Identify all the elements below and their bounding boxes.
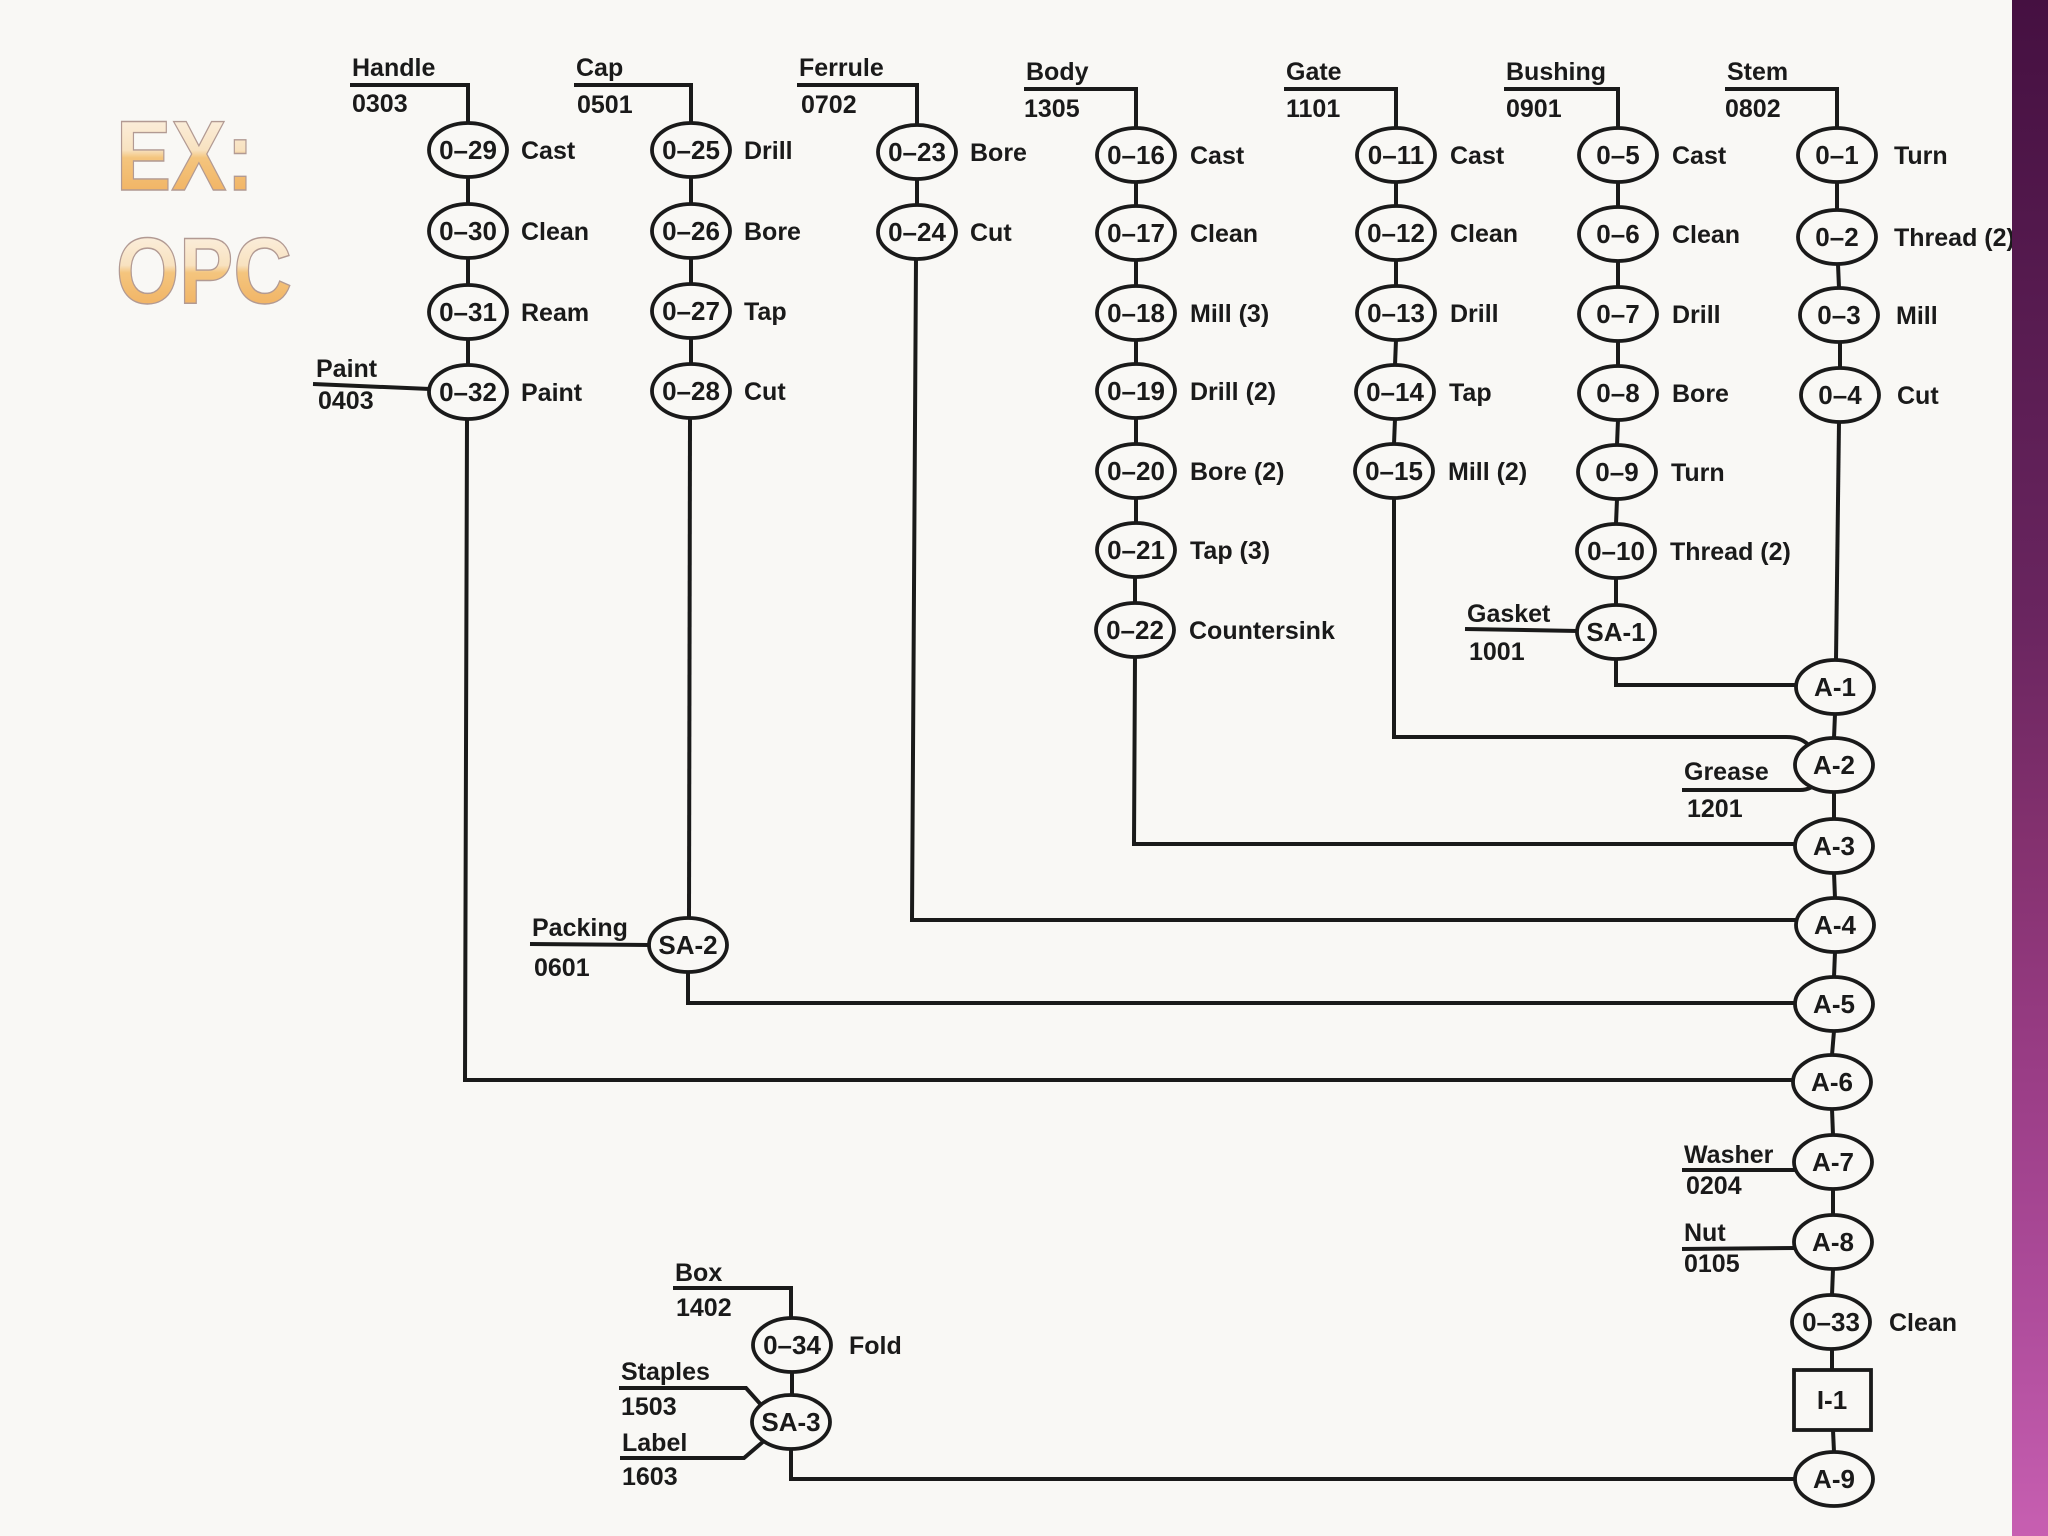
op 0-29	[429, 123, 576, 177]
wire	[466, 258, 470, 285]
wire	[1614, 578, 1618, 605]
svg-text:0403: 0403	[318, 387, 374, 415]
op 0-3	[1800, 288, 1938, 342]
svg-text:Cap: Cap	[576, 54, 623, 82]
wire	[1617, 420, 1618, 445]
svg-text:Handle: Handle	[352, 54, 435, 82]
node Nut input	[1684, 1219, 1740, 1278]
svg-text:Cut: Cut	[1897, 382, 1939, 410]
svg-text:0–29: 0–29	[439, 135, 497, 165]
svg-text:SA-3: SA-3	[761, 1407, 820, 1437]
op 0-1	[1798, 128, 1948, 182]
svg-text:Mill: Mill	[1896, 302, 1938, 330]
op 0-19	[1097, 364, 1276, 418]
subassembly SA-2	[649, 918, 727, 972]
svg-text:Cast: Cast	[1672, 142, 1727, 170]
svg-text:Gasket: Gasket	[1467, 600, 1551, 628]
svg-text:0–22: 0–22	[1106, 615, 1164, 645]
op 0-33	[1792, 1295, 1957, 1349]
svg-text:A-4: A-4	[1814, 910, 1856, 940]
node Staples input	[621, 1358, 710, 1421]
svg-text:0–2: 0–2	[1815, 222, 1858, 252]
svg-text:Mill (2): Mill (2)	[1448, 458, 1527, 486]
op 0-14	[1356, 365, 1492, 419]
op 0-11	[1357, 128, 1505, 182]
svg-text:0–20: 0–20	[1107, 456, 1165, 486]
svg-text:OPC: OPC	[116, 218, 292, 323]
wire	[689, 177, 693, 204]
svg-text:0–7: 0–7	[1596, 299, 1639, 329]
svg-text:0601: 0601	[534, 954, 590, 982]
op 0-31	[429, 285, 589, 339]
svg-text:0–6: 0–6	[1596, 219, 1639, 249]
wire Box input	[673, 1288, 791, 1318]
svg-text:0–11: 0–11	[1368, 140, 1424, 170]
svg-text:0–18: 0–18	[1107, 298, 1165, 328]
svg-text:Clean: Clean	[1450, 220, 1518, 248]
svg-text:0–26: 0–26	[662, 216, 720, 246]
wire	[1834, 714, 1835, 738]
svg-text:0–33: 0–33	[1802, 1307, 1860, 1337]
svg-text:SA-2: SA-2	[658, 930, 717, 960]
svg-text:0–23: 0–23	[888, 137, 946, 167]
wire Label input	[620, 1440, 765, 1458]
svg-text:0–34: 0–34	[763, 1330, 821, 1360]
node Ferrule header	[799, 54, 884, 119]
svg-text:Tap (3): Tap (3)	[1190, 537, 1270, 565]
svg-text:Grease: Grease	[1684, 758, 1769, 786]
node Washer input	[1684, 1141, 1774, 1200]
svg-text:0303: 0303	[352, 90, 408, 118]
wire Nut input	[1682, 1248, 1796, 1249]
op 0-15	[1355, 444, 1527, 498]
op 0-20	[1097, 444, 1284, 498]
wire Gasket input	[1465, 629, 1578, 631]
op 0-34	[753, 1318, 902, 1372]
wire	[1838, 342, 1842, 368]
svg-text:0–4: 0–4	[1818, 380, 1862, 410]
wire Body to A-3	[1134, 657, 1796, 844]
wire	[1832, 1031, 1834, 1055]
svg-text:0–30: 0–30	[439, 216, 497, 246]
svg-text:1402: 1402	[676, 1294, 732, 1322]
svg-text:A-5: A-5	[1813, 989, 1855, 1019]
wire SA-1 to A-1	[1616, 659, 1796, 685]
wire	[1830, 1349, 1834, 1370]
wire Gate header underline	[1284, 89, 1396, 128]
wire Gate to A-2	[1394, 498, 1810, 747]
svg-text:Gate: Gate	[1286, 58, 1342, 86]
node Stem header	[1725, 58, 1788, 123]
svg-text:Ferrule: Ferrule	[799, 54, 884, 82]
svg-text:0–17: 0–17	[1107, 218, 1165, 248]
svg-text:0–21: 0–21	[1107, 535, 1165, 565]
op 0-28	[652, 364, 786, 418]
wire	[1832, 1269, 1833, 1295]
wire	[1394, 182, 1398, 206]
assembly A-9	[1795, 1452, 1873, 1506]
svg-text:0–5: 0–5	[1596, 140, 1639, 170]
wire	[466, 177, 470, 204]
node Packing input	[532, 914, 628, 982]
wire Handle to A-6	[465, 419, 1796, 1080]
op 0-26	[652, 204, 801, 258]
svg-text:1503: 1503	[621, 1393, 677, 1421]
svg-text:Fold: Fold	[849, 1332, 902, 1360]
wire	[1833, 1430, 1834, 1452]
wire Cap header underline	[574, 85, 691, 123]
svg-text:A-3: A-3	[1813, 831, 1855, 861]
svg-text:Bore: Bore	[744, 218, 801, 246]
node Gate header	[1286, 58, 1342, 123]
node Grease input	[1684, 758, 1769, 823]
inspection I-1	[1794, 1370, 1871, 1430]
svg-text:Thread (2): Thread (2)	[1894, 224, 2015, 252]
wire	[1838, 264, 1839, 288]
op 0-16	[1097, 128, 1245, 182]
op 0-30	[429, 204, 589, 258]
node Body header	[1024, 58, 1089, 123]
wire Staples input	[619, 1388, 763, 1407]
wire	[689, 258, 693, 284]
svg-text:Nut: Nut	[1684, 1219, 1726, 1247]
assembly A-7	[1794, 1135, 1872, 1189]
wire	[1134, 182, 1138, 206]
svg-text:Turn: Turn	[1671, 459, 1725, 487]
svg-text:0–12: 0–12	[1367, 218, 1425, 248]
svg-text:Packing: Packing	[532, 914, 628, 942]
svg-text:Cut: Cut	[970, 219, 1012, 247]
wire Bushing header underline	[1504, 89, 1618, 128]
wire Packing input	[530, 944, 650, 945]
op 0-7	[1579, 287, 1721, 341]
assembly A-4	[1796, 898, 1874, 952]
wire SA-2 to A-5	[688, 972, 1796, 1003]
node Paint input	[316, 355, 378, 415]
assembly A-5	[1795, 977, 1873, 1031]
wire Stem header underline	[1725, 89, 1837, 128]
wire Grease input	[1682, 781, 1817, 790]
svg-text:0–13: 0–13	[1367, 298, 1425, 328]
svg-text:0–10: 0–10	[1587, 536, 1645, 566]
wire	[1616, 261, 1620, 287]
wire	[915, 179, 919, 205]
svg-text:0–19: 0–19	[1107, 376, 1165, 406]
svg-text:A-9: A-9	[1813, 1464, 1855, 1494]
op 0-10	[1577, 524, 1791, 578]
op 0-12	[1357, 206, 1518, 260]
op 0-9	[1578, 445, 1725, 499]
svg-text:Cut: Cut	[744, 378, 786, 406]
svg-text:0–32: 0–32	[439, 377, 497, 407]
wire	[1616, 499, 1617, 524]
node Cap header	[576, 54, 633, 119]
svg-text:Paint: Paint	[521, 379, 583, 407]
wire	[1834, 873, 1835, 898]
svg-text:Drill: Drill	[1450, 300, 1499, 328]
wire	[1395, 340, 1396, 365]
svg-text:Tap: Tap	[744, 298, 787, 326]
svg-text:1201: 1201	[1687, 795, 1743, 823]
svg-text:0–3: 0–3	[1817, 300, 1860, 330]
subassembly SA-1	[1577, 605, 1655, 659]
svg-text:Ream: Ream	[521, 299, 589, 327]
svg-text:Box: Box	[675, 1259, 722, 1287]
op 0-8	[1579, 366, 1729, 420]
svg-text:Staples: Staples	[621, 1358, 710, 1386]
svg-text:0802: 0802	[1725, 95, 1781, 123]
svg-text:0501: 0501	[577, 91, 633, 119]
op 0-13	[1357, 286, 1499, 340]
svg-text:A-2: A-2	[1813, 750, 1855, 780]
wire	[689, 338, 693, 364]
svg-text:0–9: 0–9	[1595, 457, 1638, 487]
svg-text:Bore (2): Bore (2)	[1190, 458, 1284, 486]
wire Stem to A-1	[1836, 422, 1839, 660]
op 0-4	[1801, 368, 1939, 422]
svg-text:A-6: A-6	[1811, 1067, 1853, 1097]
svg-text:Label: Label	[622, 1429, 687, 1457]
svg-text:Cast: Cast	[521, 137, 576, 165]
op 0-32	[429, 365, 583, 419]
node Handle header	[352, 54, 435, 118]
wire	[1834, 952, 1835, 977]
svg-text:Tap: Tap	[1449, 379, 1492, 407]
wire	[1133, 577, 1137, 603]
svg-text:Bore: Bore	[1672, 380, 1729, 408]
svg-text:Mill (3): Mill (3)	[1190, 300, 1269, 328]
svg-text:0–14: 0–14	[1366, 377, 1424, 407]
svg-text:Drill: Drill	[1672, 301, 1721, 329]
svg-text:0–15: 0–15	[1365, 456, 1423, 486]
svg-text:Clean: Clean	[1889, 1309, 1957, 1337]
svg-text:Clean: Clean	[1190, 220, 1258, 248]
svg-text:Clean: Clean	[1672, 221, 1740, 249]
wire Washer input	[1682, 1168, 1796, 1172]
assembly A-8	[1794, 1215, 1872, 1269]
op 0-17	[1097, 206, 1258, 260]
wire	[790, 1372, 794, 1395]
node Gasket input	[1467, 600, 1551, 666]
wire	[1394, 419, 1395, 444]
wire	[466, 339, 470, 365]
svg-text:A-7: A-7	[1812, 1147, 1854, 1177]
assembly A-3	[1795, 819, 1873, 873]
wire	[1394, 260, 1398, 286]
svg-text:Body: Body	[1026, 58, 1089, 86]
op 0-6	[1579, 207, 1740, 261]
wire Handle header underline	[350, 85, 468, 123]
op 0-5	[1579, 128, 1727, 182]
wire Ferrule header underline	[797, 85, 917, 125]
wire	[1134, 260, 1138, 286]
op 0-25	[652, 123, 793, 177]
assembly A-1	[1796, 660, 1874, 714]
op 0-23	[878, 125, 1027, 179]
assembly A-2	[1795, 738, 1873, 792]
wire	[1134, 418, 1138, 444]
svg-text:Turn: Turn	[1894, 142, 1948, 170]
svg-text:A-8: A-8	[1812, 1227, 1854, 1257]
svg-text:1101: 1101	[1286, 95, 1340, 123]
wire Paint input	[313, 384, 430, 389]
svg-text:0–25: 0–25	[662, 135, 720, 165]
svg-text:A-1: A-1	[1814, 672, 1856, 702]
wire Body header underline	[1024, 89, 1136, 128]
node Label input	[622, 1429, 687, 1491]
assembly A-6	[1793, 1055, 1871, 1109]
wire	[1831, 1189, 1835, 1215]
op 0-22	[1096, 603, 1335, 657]
svg-text:0–31: 0–31	[439, 297, 497, 327]
svg-text:Paint: Paint	[316, 355, 378, 383]
wire SA-3 to A-9	[791, 1449, 1796, 1479]
title EX: OPC	[116, 100, 292, 323]
svg-text:Washer: Washer	[1684, 1141, 1774, 1169]
op 0-21	[1097, 523, 1270, 577]
svg-text:0–27: 0–27	[662, 296, 720, 326]
node Box input	[675, 1259, 732, 1322]
svg-text:0–24: 0–24	[888, 217, 946, 247]
svg-text:0901: 0901	[1506, 95, 1562, 123]
purple sidebar	[2012, 0, 2048, 1536]
wire	[1616, 182, 1620, 207]
svg-text:0–28: 0–28	[662, 376, 720, 406]
wire	[1134, 340, 1138, 364]
svg-text:Countersink: Countersink	[1189, 617, 1335, 645]
svg-text:Thread (2): Thread (2)	[1670, 538, 1791, 566]
svg-text:Bushing: Bushing	[1506, 58, 1606, 86]
node Bushing header	[1506, 58, 1606, 123]
wire Ferrule to A-4	[912, 259, 1796, 920]
svg-text:0–16: 0–16	[1107, 140, 1165, 170]
wire	[1832, 1109, 1833, 1135]
svg-text:EX:: EX:	[116, 100, 254, 211]
subassembly SA-3	[752, 1395, 830, 1449]
svg-text:0105: 0105	[1684, 1250, 1740, 1278]
wire	[1134, 498, 1138, 523]
svg-text:I-1: I-1	[1817, 1385, 1847, 1415]
op 0-27	[652, 284, 787, 338]
op 0-2	[1798, 210, 2015, 264]
svg-text:Stem: Stem	[1727, 58, 1788, 86]
svg-text:0–8: 0–8	[1596, 378, 1639, 408]
wire	[1832, 792, 1836, 819]
svg-text:Drill: Drill	[744, 137, 793, 165]
svg-text:0702: 0702	[801, 91, 857, 119]
op 0-18	[1097, 286, 1269, 340]
op 0-24	[878, 205, 1012, 259]
svg-text:0–1: 0–1	[1815, 140, 1858, 170]
svg-text:Clean: Clean	[521, 218, 589, 246]
svg-text:Drill (2): Drill (2)	[1190, 378, 1276, 406]
svg-text:1305: 1305	[1024, 95, 1080, 123]
svg-text:SA-1: SA-1	[1586, 617, 1645, 647]
wire	[1835, 182, 1839, 210]
svg-text:1603: 1603	[622, 1463, 678, 1491]
svg-text:1001: 1001	[1469, 638, 1525, 666]
wire	[1616, 341, 1620, 366]
svg-text:Cast: Cast	[1190, 142, 1245, 170]
svg-text:Bore: Bore	[970, 139, 1027, 167]
svg-text:Cast: Cast	[1450, 142, 1505, 170]
svg-text:0204: 0204	[1686, 1172, 1742, 1200]
wire Cap to SA-2	[689, 418, 690, 918]
